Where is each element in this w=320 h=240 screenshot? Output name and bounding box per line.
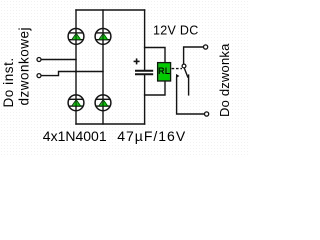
relay actuation dashed link (172, 68, 182, 70)
switch movable blade (184, 68, 188, 78)
switch NO contact arrow tip (176, 74, 179, 78)
terminal lower right (205, 112, 209, 116)
wire NO contact down to lower right terminal (177, 78, 205, 114)
terminal upper right (204, 45, 208, 49)
switch resting contact (vertical stub) (188, 74, 190, 95)
wire relay coil bottom connector (145, 81, 165, 95)
terminal upper left (37, 58, 41, 62)
diode D1 (top left, 1N4001) (68, 29, 84, 45)
diode D4 (bottom right, 1N4001) (95, 95, 111, 111)
svg-text:47µF/16V: 47µF/16V (117, 128, 186, 144)
diode D2 (top right, 1N4001) (95, 29, 111, 45)
diode D3 (bottom left, 1N4001) (68, 95, 84, 111)
wire AC input 2 (lower left terminal, jog up, to right column midpoint) (41, 72, 103, 76)
capacitor plus sign (134, 58, 140, 64)
wire left bridge column (75, 10, 77, 124)
switch pivot contact circle (182, 64, 186, 68)
wire relay coil top connector (145, 48, 165, 63)
svg-text:Do inst.: Do inst. (1, 57, 16, 107)
svg-text:RL: RL (158, 66, 170, 76)
wire switch common to upper right terminal (184, 47, 204, 64)
relay coil RL (green box) (158, 63, 171, 81)
wire bottom rail (76, 123, 145, 125)
capacitor C1 47uF/16V plates (135, 71, 153, 75)
wire DC+ vertical upper (top rail down to capacitor top plate) (144, 10, 146, 70)
wire AC input 1 (upper left terminal to left column midpoint) (41, 59, 76, 61)
svg-text:Do dzwonka: Do dzwonka (217, 43, 232, 117)
svg-text:dzwonkowej: dzwonkowej (17, 27, 32, 106)
wire right bridge column (102, 10, 104, 124)
terminal lower left (37, 74, 41, 78)
svg-text:12V DC: 12V DC (153, 23, 199, 37)
junction node (AC2 wire crossing) (75, 70, 77, 72)
wire top rail (76, 9, 145, 11)
wire DC- vertical lower (capacitor bottom plate to bottom rail) (144, 75, 146, 124)
svg-text:4x1N4001: 4x1N4001 (43, 128, 107, 144)
